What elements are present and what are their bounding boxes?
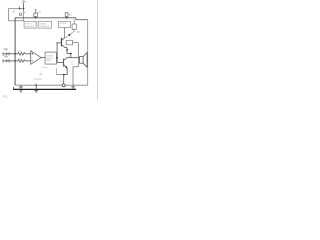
svg-text:C3 10u: C3 10u [41, 67, 49, 69]
svg-text:2N: 2N [71, 64, 74, 66]
svg-text:DRIVE: DRIVE [60, 23, 67, 25]
svg-text:J1: J1 [60, 81, 63, 83]
svg-text:OUTPUT: OUTPUT [34, 79, 44, 81]
svg-text:AMP: AMP [47, 59, 52, 62]
svg-text:Q2: Q2 [67, 56, 70, 58]
svg-text:≈V1: ≈V1 [11, 11, 16, 14]
svg-text:BUFFER: BUFFER [25, 26, 34, 28]
svg-text:R1: R1 [38, 11, 42, 14]
svg-text:R2: R2 [69, 13, 73, 16]
svg-text:FIG 1: FIG 1 [3, 96, 9, 98]
svg-text:CONTROL: CONTROL [39, 26, 50, 28]
svg-text:R5: R5 [77, 32, 81, 34]
